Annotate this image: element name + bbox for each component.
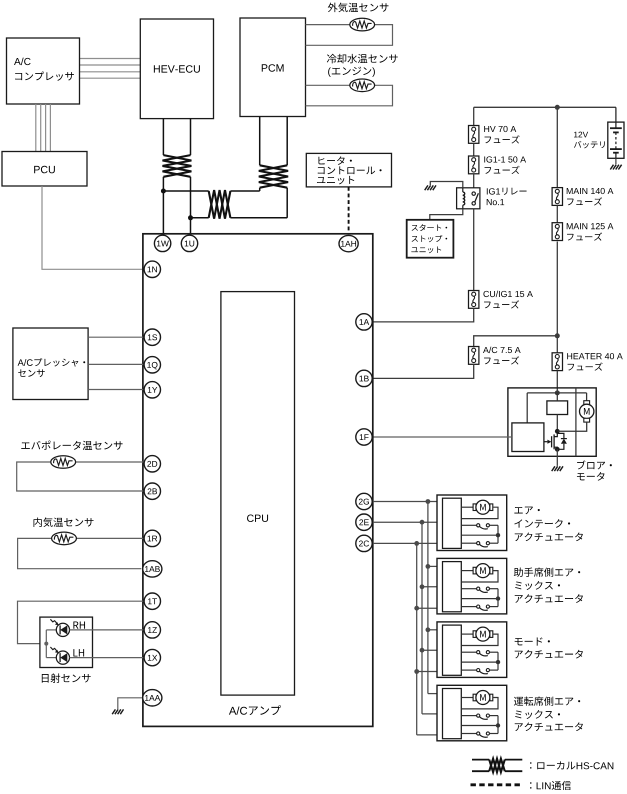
legend label local HS-CAN <box>530 761 613 769</box>
HS-CAN pair PCM down-wires <box>259 117 261 166</box>
passenger air mix actuator middle wire <box>461 598 498 600</box>
pin 1Y <box>144 382 160 398</box>
mode actuator switch 1 <box>461 651 476 653</box>
wire LH to pin 1X <box>70 657 144 659</box>
pin 1R <box>144 530 160 546</box>
wire evaporator sensor loop <box>17 462 144 491</box>
A/C amplifier main box <box>143 234 373 727</box>
wire PCM to outside air temp sensor loop <box>306 25 393 46</box>
wire relay to CU/IG1 fuse <box>473 209 475 291</box>
relay IG1 No.1 box <box>457 188 480 209</box>
junction node mosfet source <box>555 447 560 452</box>
junction node blower mosfet drain <box>555 429 560 434</box>
wire bundle A/C compressor to PCU (4 lines) <box>35 104 37 152</box>
driver air mix actuator switch 2 <box>461 733 476 735</box>
HS-CAN pair HEV-ECU down-wires <box>162 119 164 156</box>
pin 1Q <box>144 357 160 373</box>
evaporator temp sensor thermistor <box>51 456 76 469</box>
pin 1T <box>144 593 160 609</box>
battery 12V symbol <box>608 122 624 158</box>
ground chassis battery <box>610 165 613 170</box>
pin 1N <box>144 261 160 277</box>
passenger air mix actuator connector rect <box>443 562 462 612</box>
pin 2C <box>356 535 372 551</box>
pin 1F <box>356 429 372 445</box>
air intake actuator motor M <box>461 506 473 508</box>
outside air temp sensor thermistor <box>350 18 375 31</box>
wire RH to pin 1Z <box>70 629 144 631</box>
mode actuator right vertical wire <box>497 652 499 670</box>
mode actuator motor return wire <box>461 634 498 645</box>
wire pin 1F to blower control <box>373 436 512 438</box>
wire battery to ground <box>615 158 617 164</box>
junction node blower input <box>555 390 560 395</box>
air intake actuator motor return wire <box>461 507 498 518</box>
pin 1AA <box>143 690 162 706</box>
wire pin 1AA to ground <box>118 698 144 709</box>
junction node top rail <box>555 105 560 110</box>
passenger air mix actuator motor M <box>461 570 473 572</box>
junction node A/C fuse branch <box>555 333 560 338</box>
junction node on 1U wire <box>188 215 193 220</box>
pin 1W <box>154 235 170 251</box>
label sun sensor 日射センサ <box>42 673 91 682</box>
wire CU/IG1 fuse to pin 1A <box>373 308 474 322</box>
passenger air mix actuator right vertical wire <box>497 589 499 607</box>
pin 2D <box>144 456 160 472</box>
wires pressure sensor to pins 1S 1Q 1Y <box>88 336 143 338</box>
junction nodes bus branches air intake actuator <box>426 499 431 504</box>
fuse MAIN 140 A <box>552 188 562 206</box>
pin 2G <box>356 493 372 509</box>
PCU box <box>2 152 87 187</box>
LIN dashed wire heater control to pin 1AH <box>348 187 350 235</box>
pin 1U <box>181 235 197 251</box>
mosfet body diode <box>557 433 564 449</box>
CPU box <box>221 292 295 695</box>
label air intake actuator <box>514 507 539 515</box>
feed wires bus to driver air mix actuator <box>428 693 443 695</box>
junction nodes bus branches mode actuator <box>426 627 431 632</box>
pin 1B <box>356 370 372 386</box>
air intake actuator switch 1 <box>461 524 476 526</box>
driver air mix actuator middle wire <box>461 725 498 727</box>
air intake actuator right vertical wire <box>497 525 499 543</box>
legend label LIN <box>530 781 571 790</box>
wire HEATER fuse to blower unit <box>556 371 558 393</box>
wire PCU to pin 1N <box>42 186 143 269</box>
wire rail to HV fuse <box>473 107 475 125</box>
mode actuator box <box>437 622 507 678</box>
pin 1A <box>356 314 372 330</box>
wire pin 2C to actuator bus C <box>373 542 443 544</box>
air intake actuator switch 2 <box>461 542 476 544</box>
actuator bus C vertical <box>416 543 418 735</box>
pin 1S <box>144 329 160 345</box>
mode actuator connector rect <box>443 625 462 675</box>
fuse IG1-1 50 A <box>469 156 479 174</box>
label blower motor ブロア・モータ <box>577 460 612 469</box>
cabin temp sensor thermistor <box>52 532 77 545</box>
wire A/C fuse to pin 1B <box>373 364 474 378</box>
sun sensor common wire <box>45 630 47 658</box>
mode actuator switch 2 <box>461 669 476 671</box>
wire cabin temp sensor loop <box>18 538 142 568</box>
label outside air temp sensor 外気温センサ <box>328 3 389 13</box>
label mode actuator <box>515 637 550 645</box>
label cabin temp sensor 内気温センサ <box>34 517 94 527</box>
fuse HEATER 40 A <box>552 353 562 371</box>
actuator bus A vertical <box>427 502 429 694</box>
label A/C amplifier A/Cアンプ <box>229 705 281 715</box>
wire MAIN125 down to HEATER fuse <box>556 242 558 353</box>
photodiode RH <box>46 629 56 631</box>
HEV-ECU box <box>140 19 213 119</box>
pin 1AH <box>339 235 358 251</box>
driver air mix actuator right vertical wire <box>497 716 499 734</box>
feed wires bus to passenger air mix actuator <box>428 565 443 567</box>
blower top distribution wire <box>527 392 586 394</box>
twisted pair symbol horizontal <box>209 190 231 219</box>
driver air mix actuator box <box>437 685 507 741</box>
start-stop unit box <box>407 220 454 258</box>
ground chassis 1AA <box>112 709 115 714</box>
driver air mix actuator switch 1 <box>461 715 476 717</box>
wire pin 2E to actuator bus B <box>373 521 443 523</box>
label coolant temp sensor 冷却水温センサ(エンジン) <box>327 54 398 63</box>
right bus wire down from rail <box>556 107 558 187</box>
wire relay coil to start-stop unit <box>430 209 463 220</box>
ground chassis blower <box>552 466 555 471</box>
feed wires bus to mode actuator <box>428 629 443 631</box>
blower relay rect <box>547 401 568 415</box>
mode actuator motor M <box>461 633 473 635</box>
photodiode LH <box>46 657 56 659</box>
twisted pair symbol HEV-ECU <box>163 155 192 177</box>
junction node sun sensor <box>44 642 48 646</box>
blower inner vertical wire <box>575 388 577 456</box>
passenger air mix actuator motor return wire <box>461 571 498 582</box>
relay switch contacts <box>472 192 475 195</box>
wire bundle A/C compressor to HEV-ECU (4 lines) <box>80 58 141 60</box>
fuse MAIN 125 A <box>552 223 562 241</box>
legend LIN dashed symbol <box>471 783 521 786</box>
pin 1AB <box>143 561 162 577</box>
legend local HS-CAN symbol <box>472 759 489 761</box>
heater control unit box <box>306 153 391 187</box>
sun sensor box <box>40 617 93 667</box>
ground chassis relay <box>425 185 428 190</box>
label evaporator temp sensor エバポレータ温センサ <box>21 441 122 450</box>
wire pin 1T to sun sensor common <box>18 601 144 643</box>
pin 1X <box>144 649 160 665</box>
actuator bus B vertical <box>421 522 423 714</box>
A/C compressor box <box>7 38 80 104</box>
driver air mix actuator connector rect <box>443 689 462 739</box>
fuse A/C 7.5 A <box>469 347 479 365</box>
junction nodes bus branches passenger air mix actuator <box>426 564 431 569</box>
coolant temp sensor thermistor <box>350 79 375 92</box>
driver air mix actuator motor return wire <box>461 698 498 709</box>
wire right bus to A/C fuse branch <box>474 336 558 347</box>
wire IG1-1 fuse to IG1 relay <box>473 174 475 188</box>
passenger air mix actuator switch 1 <box>461 588 476 590</box>
label driver air mix actuator <box>514 697 580 706</box>
blower motor M <box>586 393 588 401</box>
mode actuator middle wire <box>461 661 498 663</box>
passenger air mix actuator switch 2 <box>461 606 476 608</box>
HS-CAN pair to pins 1W 1U <box>162 177 164 235</box>
blower control module rect <box>512 423 544 452</box>
PCM box <box>240 18 306 117</box>
wire pin 2G to actuator bus A <box>373 501 443 503</box>
wire PCM to coolant temp sensor loop <box>306 85 393 106</box>
passenger air mix actuator box <box>437 558 507 614</box>
battery top rail wire <box>474 106 616 108</box>
fuse HV 70 A <box>469 126 479 144</box>
A/C pressure sensor box <box>13 328 88 400</box>
HS-CAN horizontal pair linking buses <box>259 188 261 191</box>
wire relay coil to ground <box>430 182 463 188</box>
fuse CU/IG1 15 A <box>469 291 479 309</box>
blower motor unit box <box>508 388 596 456</box>
pin 1Z <box>144 622 160 638</box>
mosfet Q blower driver <box>544 441 548 443</box>
pin 2B <box>144 483 160 499</box>
wire HV fuse to IG1-1 fuse <box>473 143 475 156</box>
relay coil <box>463 192 465 205</box>
pin 2E <box>356 514 372 530</box>
air intake actuator box <box>437 495 507 551</box>
twisted pair symbol PCM <box>259 165 288 187</box>
air intake actuator connector rect <box>443 498 462 548</box>
air intake actuator middle wire <box>461 534 498 536</box>
label passenger air mix actuator <box>514 568 580 577</box>
wire blower to ground <box>556 449 558 466</box>
junction node on 1W wire <box>161 189 166 194</box>
wire MAIN140 to MAIN125 <box>556 205 558 222</box>
driver air mix actuator motor M <box>461 697 473 699</box>
